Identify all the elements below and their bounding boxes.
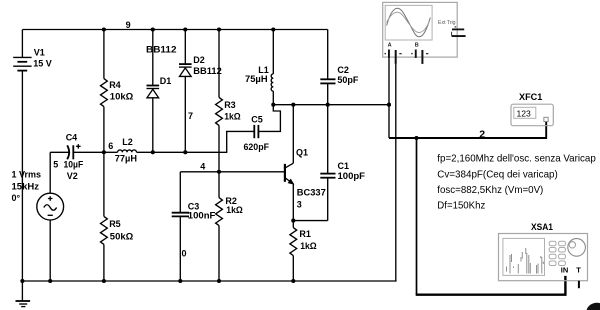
svg-text:9: 9 <box>126 20 131 30</box>
resistor R2 <box>216 172 243 281</box>
inductor L1 <box>245 30 273 105</box>
ground <box>16 281 31 307</box>
capacitor C1 <box>320 161 365 221</box>
junction row D1 <box>151 150 155 154</box>
transistor Q1 <box>285 105 326 221</box>
svg-text:15 V: 15 V <box>33 59 52 69</box>
wire scope B to bottom rail <box>395 64 397 281</box>
svg-text:C5: C5 <box>251 115 263 125</box>
svg-text:1kΩ: 1kΩ <box>300 241 317 251</box>
svg-text:Df=150Khz: Df=150Khz <box>437 201 485 212</box>
junction scope A wire <box>387 103 391 107</box>
node 6 junction <box>102 150 106 154</box>
svg-text:100pF: 100pF <box>338 171 366 181</box>
svg-text:L2: L2 <box>122 137 133 147</box>
resistor R5 <box>101 152 134 281</box>
XSA1 T stub <box>578 281 580 288</box>
junction top R3 <box>217 27 221 31</box>
wire C5 to output node <box>258 105 280 132</box>
wire emitter node to C1 <box>293 220 327 222</box>
varicap D2 <box>179 30 222 153</box>
svg-text:75µH: 75µH <box>245 74 268 84</box>
svg-text:0: 0 <box>182 248 187 258</box>
scope plug B <box>411 50 428 64</box>
wire net 6 row <box>104 151 118 153</box>
resistor R3 <box>216 30 241 172</box>
svg-text:5: 5 <box>53 160 58 170</box>
junction top L1 <box>271 27 275 31</box>
XSA1 knob <box>568 239 586 257</box>
annotation text block <box>437 153 596 211</box>
svg-text:R3: R3 <box>224 100 236 110</box>
junction collector column <box>291 103 295 107</box>
svg-text:4: 4 <box>200 162 205 172</box>
battery V1 <box>13 30 52 282</box>
svg-text:50pF: 50pF <box>337 75 358 85</box>
scope trace small <box>387 12 430 32</box>
junction net 2 / XSA wire <box>414 136 418 140</box>
svg-text:6: 6 <box>108 141 113 151</box>
svg-text:3: 3 <box>297 200 302 210</box>
svg-text:Ext Trig: Ext Trig <box>438 20 456 26</box>
junction rail C3 <box>178 279 182 283</box>
junction rail R2 <box>217 279 221 283</box>
wire output node row <box>273 104 389 106</box>
junction top D2 <box>183 27 187 31</box>
svg-text:620pF: 620pF <box>244 142 270 152</box>
svg-text:77µH: 77µH <box>115 154 137 164</box>
junction rail V1 <box>20 279 24 283</box>
junction node 4 <box>217 170 221 174</box>
scope trace big <box>387 8 431 37</box>
AC source V2 <box>12 152 78 281</box>
svg-text:BB112: BB112 <box>193 66 222 76</box>
junction top D1 <box>151 27 155 31</box>
svg-text:BC337: BC337 <box>297 187 326 197</box>
capacitor C4 <box>50 132 104 169</box>
svg-text:XSA1: XSA1 <box>531 222 554 233</box>
spectrum bars <box>507 248 544 274</box>
svg-text:IN: IN <box>561 265 569 274</box>
capacitor C2 <box>320 30 359 174</box>
svg-text:R4: R4 <box>109 80 121 90</box>
svg-text:C2: C2 <box>337 65 349 75</box>
svg-text:7: 7 <box>188 111 193 121</box>
junction emitter node <box>291 219 295 223</box>
svg-text:D2: D2 <box>193 55 205 65</box>
wire net 6/7 row to C5 bend <box>137 131 255 152</box>
svg-text:10kΩ: 10kΩ <box>110 92 134 102</box>
scope plug A <box>385 50 402 64</box>
junction rail R5 <box>102 279 106 283</box>
inductor L2 <box>115 137 137 163</box>
svg-text:Q1: Q1 <box>296 148 308 158</box>
frequency counter XFC1 <box>511 92 553 126</box>
junction rail R1 <box>291 279 295 283</box>
corner blob <box>587 303 600 310</box>
capacitor C3 <box>172 172 216 281</box>
svg-text:1 Vrms: 1 Vrms <box>12 170 42 180</box>
svg-text:B: B <box>415 42 419 48</box>
svg-text:T: T <box>576 265 581 274</box>
svg-text:15kHz: 15kHz <box>12 181 40 191</box>
svg-text:50kΩ: 50kΩ <box>110 231 134 241</box>
svg-text:0°: 0° <box>12 193 21 203</box>
wire top rail net 9 <box>22 29 327 31</box>
bottom rail net 0 <box>22 280 396 282</box>
junction top R4 <box>102 27 106 31</box>
svg-text:BB112: BB112 <box>146 45 177 55</box>
varicap D1 <box>146 30 177 153</box>
resistor R4 <box>101 30 134 153</box>
junction L1 bottom <box>271 103 275 107</box>
svg-text:XFC1: XFC1 <box>519 92 543 103</box>
svg-text:2: 2 <box>479 128 485 140</box>
svg-text:R5: R5 <box>109 219 121 229</box>
junction rail V2 <box>48 279 52 283</box>
svg-text:1kΩ: 1kΩ <box>224 111 241 121</box>
svg-text:fp=2,160Mhz dell'osc. senza Va: fp=2,160Mhz dell'osc. senza Varicap <box>437 153 596 164</box>
junction C2 column <box>326 103 330 107</box>
wire node 4 row / base wire <box>180 171 285 173</box>
svg-text:V2: V2 <box>67 171 78 181</box>
svg-text:123: 123 <box>517 109 532 119</box>
svg-text:D1: D1 <box>160 76 172 86</box>
spectrum analyzer XSA1 <box>499 222 588 281</box>
Ext Trig plug <box>451 26 466 37</box>
XSA1 buttons <box>549 241 565 265</box>
svg-text:V1: V1 <box>34 48 45 58</box>
wire net 2 to XFC1 <box>389 122 546 139</box>
capacitor C5 <box>244 115 270 152</box>
wire XSA1 IN <box>416 138 418 295</box>
svg-text:C4: C4 <box>66 132 78 142</box>
svg-text:100nF: 100nF <box>188 211 216 221</box>
svg-text:A: A <box>388 42 392 48</box>
svg-text:10µF: 10µF <box>64 160 84 170</box>
wire scope A down <box>388 58 390 138</box>
svg-text:C1: C1 <box>338 161 350 171</box>
svg-text:Cv=384pF(Ceq dei varicap): Cv=384pF(Ceq dei varicap) <box>437 169 558 180</box>
oscilloscope XSC1 body <box>383 2 458 57</box>
junction row D2 <box>183 150 187 154</box>
svg-text:R1: R1 <box>299 229 311 239</box>
svg-text:fosc=882,5Khz (Vm=0V): fosc=882,5Khz (Vm=0V) <box>437 185 543 196</box>
svg-text:1kΩ: 1kΩ <box>226 205 243 215</box>
resistor R1 <box>290 221 317 281</box>
